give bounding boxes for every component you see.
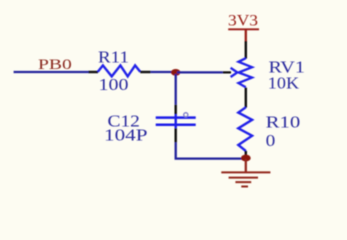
zigzag body [98, 65, 140, 76]
bottom plate [156, 123, 196, 126]
top plate [156, 116, 196, 119]
pin 2 (right lead) [140, 71, 150, 73]
resistor R11 [89, 48, 151, 95]
svg-text:104P: 104P [104, 125, 148, 144]
pin marker circle [184, 113, 188, 117]
pin 1 (left lead) [89, 71, 99, 73]
pin: RV1 bottom to R10 top (black) [245, 88, 247, 108]
pin stub (blue, crosses plates) [174, 114, 176, 128]
wiper arrowhead [231, 68, 238, 77]
ground stem [245, 159, 247, 172]
zigzag body [239, 58, 253, 87]
svg-text:10K: 10K [268, 74, 300, 93]
power bar [228, 28, 259, 30]
pin 2 (bottom lead) [174, 128, 176, 142]
ground [221, 159, 270, 187]
pin 2 (bottom lead) [245, 151, 247, 155]
wire: C12 down and right to ground junction [176, 142, 243, 158]
svg-text:R11: R11 [98, 48, 129, 67]
wire: wiper to junction [177, 71, 223, 73]
ground bar 1 [221, 171, 270, 173]
power symbol 3V3 [228, 13, 259, 42]
resistor R10 [238, 107, 300, 155]
power stem [245, 29, 247, 41]
svg-text:R10: R10 [266, 113, 301, 132]
capacitor C12 [104, 105, 196, 145]
ground bar 2 [229, 177, 258, 179]
wire: R11 to junction [151, 71, 176, 73]
wire: junction down to C12 [175, 74, 177, 105]
pin 1 (top lead) [245, 41, 247, 59]
wiper pin (black segment) [223, 71, 231, 73]
wire: left horizontal from PB0 to R11 pin [14, 71, 89, 73]
junction node B (bottom) [241, 155, 251, 162]
ground bar 4 [241, 186, 248, 188]
svg-text:3V3: 3V3 [228, 13, 258, 30]
pin 1 (top lead) [174, 105, 176, 115]
svg-text:0: 0 [266, 131, 276, 150]
zigzag body [238, 107, 252, 151]
svg-text:PB0: PB0 [38, 57, 72, 73]
potentiometer RV1 [223, 41, 305, 93]
svg-text:100: 100 [99, 75, 129, 94]
ground bar 3 [235, 181, 251, 183]
junction node A (top) [171, 69, 181, 76]
